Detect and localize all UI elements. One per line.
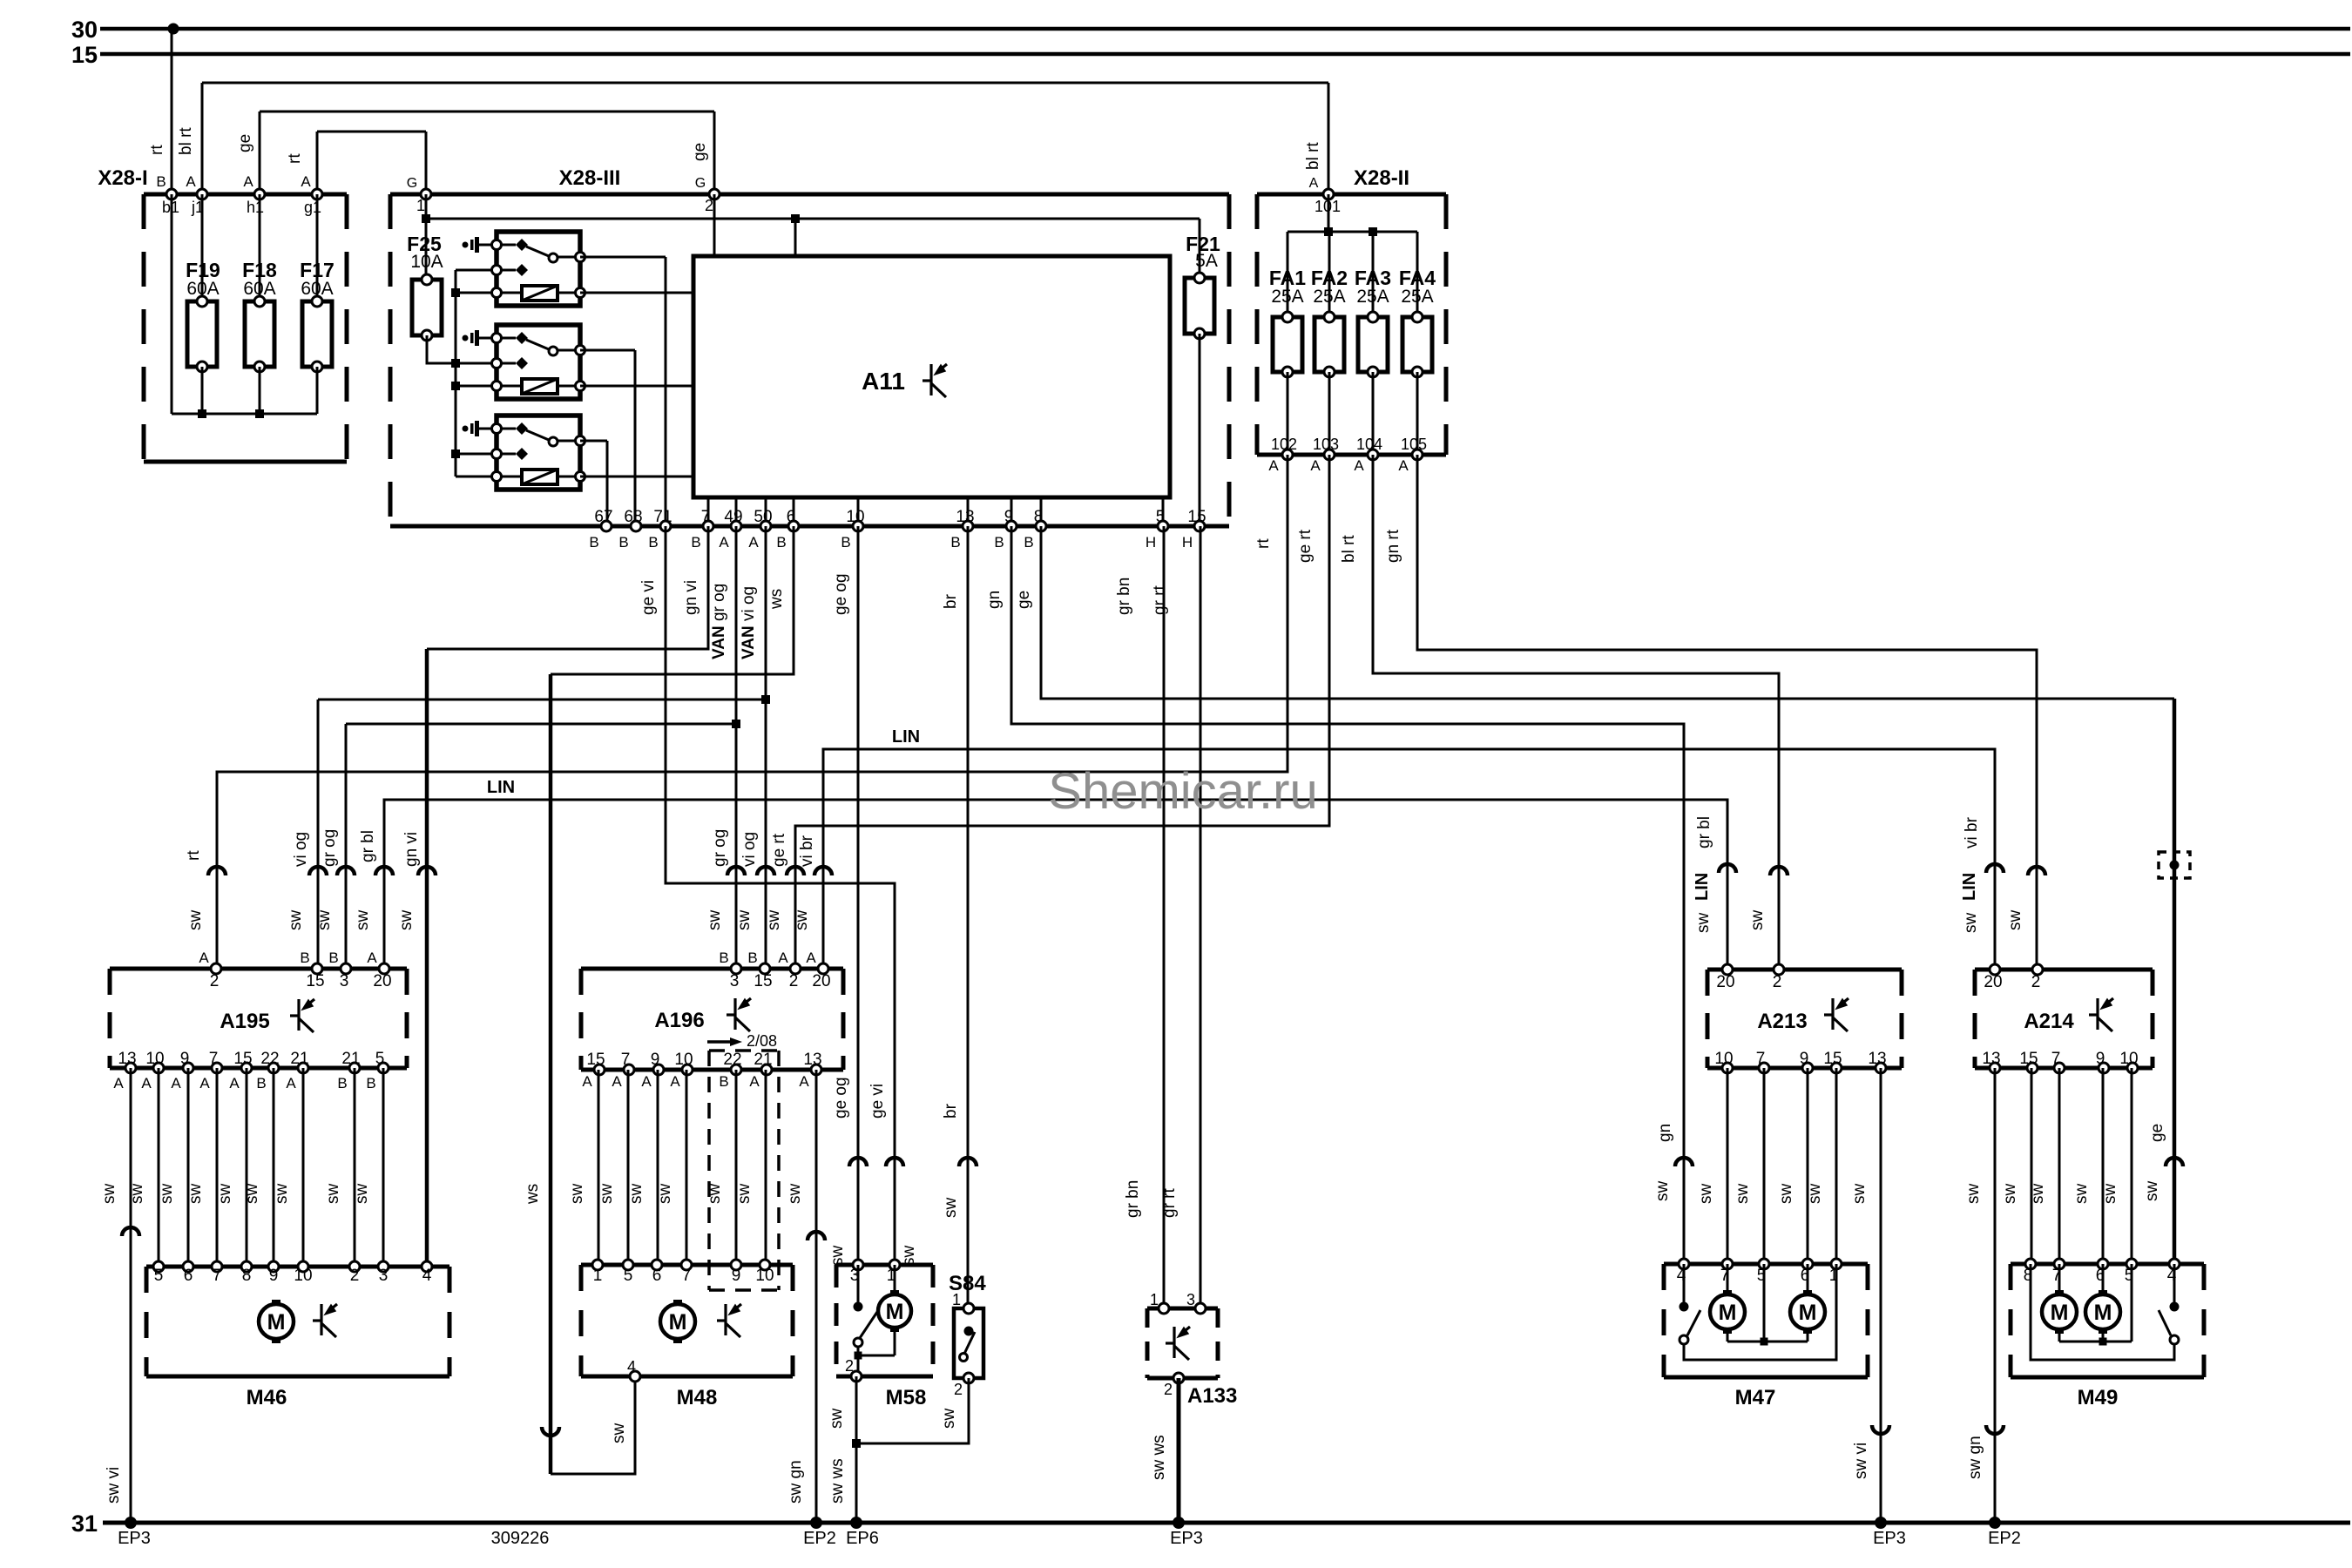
M49 pin 4 bbox=[2167, 1259, 2180, 1285]
svg-text:M49: M49 bbox=[2078, 1386, 2119, 1409]
svg-text:sw: sw bbox=[940, 1409, 958, 1429]
wire sw vi A195 pin13 to ground EP3 bbox=[105, 1068, 151, 1548]
fuse F17 60A bbox=[300, 194, 335, 414]
svg-text:4: 4 bbox=[627, 1358, 636, 1375]
svg-text:A: A bbox=[1398, 457, 1409, 474]
svg-text:br: br bbox=[942, 593, 960, 609]
svg-text:gn vi: gn vi bbox=[682, 580, 700, 615]
X28-III pin 67 bbox=[589, 508, 612, 551]
svg-text:68: 68 bbox=[624, 508, 642, 526]
svg-text:ge: ge bbox=[236, 134, 254, 152]
X28-II pin 103 bbox=[1310, 436, 1339, 474]
svg-text:sw: sw bbox=[287, 910, 305, 931]
svg-text:X28-I: X28-I bbox=[98, 166, 147, 190]
A196 pin 22 bottom bbox=[719, 1051, 741, 1090]
svg-text:1: 1 bbox=[1150, 1291, 1159, 1308]
wire sw ws A133 pin2 to ground EP3 bbox=[1150, 1378, 1203, 1548]
svg-text:sw: sw bbox=[2143, 1181, 2161, 1202]
svg-text:sw: sw bbox=[568, 1184, 586, 1205]
svg-text:A133: A133 bbox=[1187, 1384, 1237, 1408]
svg-text:104: 104 bbox=[1356, 436, 1382, 453]
M48 pin 9 bbox=[731, 1260, 741, 1285]
A195 pin 22 bottom bbox=[256, 1050, 279, 1092]
svg-text:gr og: gr og bbox=[711, 829, 729, 867]
fuse FA3 25A bbox=[1355, 267, 1391, 455]
M47 switch bbox=[1680, 1264, 1837, 1360]
wire ws pin6 to M48 pin4 bbox=[524, 526, 794, 1474]
svg-text:A: A bbox=[113, 1075, 124, 1092]
svg-text:sw: sw bbox=[1748, 910, 1767, 931]
svg-text:3: 3 bbox=[379, 1267, 389, 1285]
motor unit M49 bbox=[2011, 1264, 2204, 1409]
svg-text:sw: sw bbox=[627, 1184, 645, 1205]
relay K3 bbox=[463, 416, 585, 490]
svg-text:H: H bbox=[1146, 534, 1156, 551]
motor unit M48 bbox=[581, 1265, 793, 1409]
svg-text:A: A bbox=[1354, 457, 1364, 474]
svg-text:EP2: EP2 bbox=[1988, 1529, 2021, 1548]
svg-text:A: A bbox=[1309, 176, 1319, 191]
M58 pin 1 bbox=[887, 1260, 900, 1285]
A213 pin 13 bottom bbox=[1868, 1050, 1886, 1073]
svg-text:105: 105 bbox=[1401, 436, 1427, 453]
wire sw gn A196 pin13 to ground EP2 bbox=[786, 1070, 836, 1548]
wire ge rt FA2 to A196 pin2 bbox=[765, 455, 1329, 969]
A196 pin 15 bbox=[747, 950, 772, 990]
M47 pin 5 bbox=[1757, 1259, 1769, 1285]
svg-text:sw: sw bbox=[353, 1184, 371, 1205]
X28-II pin 101 bbox=[1309, 176, 1341, 215]
M47 pin 4 bbox=[1677, 1259, 1689, 1285]
M48 symbol bbox=[717, 1304, 741, 1337]
svg-text:2: 2 bbox=[954, 1381, 963, 1398]
A196 pin 9 bottom bbox=[641, 1051, 664, 1090]
svg-text:gr bl: gr bl bbox=[359, 830, 377, 862]
svg-text:15: 15 bbox=[586, 1051, 605, 1069]
A213 pin 7 bottom bbox=[1756, 1050, 1769, 1073]
relay pins bbox=[492, 240, 502, 250]
A196 pin 13 bottom bbox=[799, 1051, 821, 1090]
svg-text:sw: sw bbox=[1697, 1184, 1715, 1205]
svg-text:gr bn: gr bn bbox=[1124, 1180, 1142, 1218]
svg-text:ws: ws bbox=[767, 589, 786, 610]
M46 pin 2 bbox=[349, 1261, 360, 1285]
svg-text:M47: M47 bbox=[1735, 1386, 1776, 1409]
svg-text:10: 10 bbox=[755, 1267, 774, 1285]
M46 pin 3 bbox=[378, 1261, 389, 1285]
svg-text:3: 3 bbox=[730, 972, 740, 990]
svg-text:1: 1 bbox=[952, 1291, 961, 1308]
svg-text:B: B bbox=[366, 1075, 375, 1092]
wire ge vi pin71 to M58 pin1 bbox=[639, 526, 918, 1266]
M46 motor bbox=[259, 1300, 294, 1343]
svg-text:sw: sw bbox=[397, 910, 416, 931]
svg-text:A214: A214 bbox=[2024, 1010, 2074, 1033]
wire sw gn A214 pin13 to ground EP2 bbox=[1964, 1068, 2021, 1548]
svg-text:EP2: EP2 bbox=[803, 1529, 836, 1548]
svg-text:10A: 10A bbox=[410, 252, 443, 272]
svg-text:LIN: LIN bbox=[487, 778, 515, 797]
svg-text:sw: sw bbox=[2072, 1184, 2091, 1205]
connector marker on ge wire bbox=[2159, 852, 2190, 878]
X28-III pin 2 G bbox=[695, 176, 720, 214]
svg-text:2: 2 bbox=[210, 972, 220, 990]
svg-text:49: 49 bbox=[724, 508, 742, 526]
wire ge X28-I h1 to X28-III pin 2 bbox=[236, 112, 714, 194]
svg-text:ge rt: ge rt bbox=[1296, 529, 1315, 563]
svg-text:25A: 25A bbox=[1401, 287, 1433, 307]
svg-text:sw: sw bbox=[765, 910, 783, 931]
relay pins bbox=[492, 334, 502, 343]
svg-text:25A: 25A bbox=[1356, 287, 1389, 307]
svg-text:A: A bbox=[641, 1073, 652, 1090]
svg-text:rt: rt bbox=[148, 145, 166, 155]
svg-text:22: 22 bbox=[260, 1050, 279, 1068]
svg-text:2: 2 bbox=[2031, 973, 2041, 991]
svg-text:A: A bbox=[141, 1075, 152, 1092]
svg-text:A: A bbox=[301, 173, 311, 190]
svg-text:50: 50 bbox=[754, 508, 772, 526]
svg-text:H: H bbox=[1182, 534, 1193, 551]
svg-text:sw: sw bbox=[942, 1198, 960, 1219]
svg-text:sw: sw bbox=[706, 910, 724, 931]
X28-III pin 7 bbox=[691, 508, 713, 551]
svg-text:B: B bbox=[719, 950, 728, 966]
svg-text:sw: sw bbox=[1734, 1184, 1752, 1205]
svg-text:A195: A195 bbox=[220, 1010, 269, 1033]
svg-text:13: 13 bbox=[956, 508, 974, 526]
svg-text:6: 6 bbox=[184, 1267, 193, 1285]
svg-text:B: B bbox=[618, 534, 628, 551]
svg-text:gn: gn bbox=[985, 591, 1004, 609]
svg-text:15: 15 bbox=[1823, 1050, 1842, 1068]
svg-text:1: 1 bbox=[593, 1267, 603, 1285]
svg-text:A213: A213 bbox=[1757, 1010, 1807, 1033]
svg-text:br: br bbox=[942, 1103, 960, 1119]
A195 pin 13 bottom bbox=[113, 1050, 136, 1092]
svg-text:2/08: 2/08 bbox=[747, 1032, 777, 1050]
svg-text:A11: A11 bbox=[862, 368, 905, 395]
A196 pin 21 bottom bbox=[749, 1051, 772, 1090]
svg-text:B: B bbox=[691, 534, 700, 551]
M49 pin 6 bbox=[2096, 1259, 2108, 1285]
wire F25 to relay bus bbox=[427, 335, 456, 363]
svg-text:2: 2 bbox=[1773, 973, 1782, 991]
svg-text:sw: sw bbox=[2101, 1184, 2119, 1205]
svg-text:VAN gr og: VAN gr og bbox=[710, 584, 728, 659]
svg-text:B: B bbox=[994, 534, 1004, 551]
svg-text:B: B bbox=[1024, 534, 1033, 551]
X28-III pin 5 bbox=[1146, 508, 1168, 551]
svg-text:A: A bbox=[582, 1073, 592, 1090]
label 309226 bbox=[491, 1529, 550, 1548]
svg-text:gr rt: gr rt bbox=[1151, 585, 1169, 616]
svg-text:A: A bbox=[199, 1075, 210, 1092]
control unit A196 bbox=[581, 969, 843, 1070]
A195 pin 5 bottom bbox=[366, 1050, 389, 1092]
M46 pin 5 bbox=[153, 1261, 164, 1285]
relay pins bbox=[492, 424, 502, 434]
M49 pin 7 bbox=[2052, 1259, 2065, 1285]
X28-II pin 105 bbox=[1398, 436, 1427, 474]
svg-text:M: M bbox=[2051, 1301, 2069, 1325]
svg-text:sw gn: sw gn bbox=[1966, 1436, 1984, 1479]
svg-text:vi og: vi og bbox=[740, 832, 759, 867]
wire sw vi A213 pin13 to ground EP3 bbox=[1850, 1068, 1906, 1548]
svg-text:20: 20 bbox=[1984, 973, 2002, 991]
relay K1 bbox=[463, 232, 585, 306]
A195 pin 21 bottom bbox=[337, 1050, 360, 1092]
svg-text:sw: sw bbox=[656, 1184, 674, 1205]
svg-text:21: 21 bbox=[290, 1050, 308, 1068]
A214 pin 9 bottom bbox=[2096, 1050, 2109, 1073]
svg-text:15: 15 bbox=[754, 972, 772, 990]
wire ge pin8 to M49 pin4 bbox=[1015, 526, 2183, 1264]
svg-text:M: M bbox=[886, 1300, 904, 1324]
wire relay K3 coil to A11 bbox=[580, 476, 693, 478]
option dashed box bbox=[709, 1051, 779, 1290]
wire relay K2 output to pin 68 bbox=[580, 350, 635, 526]
svg-text:5: 5 bbox=[375, 1050, 385, 1068]
internal feed wire from pin1 to F21 and A11 bbox=[422, 194, 1200, 280]
wire gr bn pin5 to A133 pin1 bbox=[1115, 526, 1164, 1308]
M46 pin 6 bbox=[183, 1261, 193, 1285]
M48 pin 6 bbox=[652, 1260, 662, 1285]
relay supply bus bbox=[451, 270, 497, 476]
wire LIN vi br A196 pin20 to A214 pin20 bbox=[793, 727, 2004, 970]
A214 pin 2 bbox=[2031, 964, 2043, 991]
svg-text:31: 31 bbox=[71, 1511, 98, 1537]
switch S84 bbox=[949, 1272, 986, 1378]
M46 pin 7 bbox=[212, 1261, 222, 1285]
svg-text:sw gn: sw gn bbox=[787, 1460, 805, 1504]
svg-text:bl rt: bl rt bbox=[1340, 535, 1358, 563]
fuse FA4 25A bbox=[1399, 267, 1436, 455]
relay coil bbox=[522, 379, 558, 394]
A195 pin 15 bottom bbox=[229, 1050, 252, 1092]
svg-text:B: B bbox=[156, 173, 166, 190]
svg-text:A: A bbox=[171, 1075, 181, 1092]
M46 symbol bbox=[313, 1304, 337, 1337]
svg-text:bl rt: bl rt bbox=[1304, 142, 1322, 170]
svg-text:sw: sw bbox=[735, 910, 754, 931]
svg-text:6: 6 bbox=[652, 1267, 662, 1285]
wire gn pin9 to M47 pin4 bbox=[985, 526, 1693, 1264]
X28-III pin 71 bbox=[648, 508, 672, 551]
svg-text:EP3: EP3 bbox=[1873, 1529, 1906, 1548]
svg-text:A: A bbox=[778, 950, 788, 966]
control unit A213 bbox=[1707, 970, 1902, 1068]
control unit A214 bbox=[1975, 970, 2153, 1068]
svg-text:13: 13 bbox=[1868, 1050, 1886, 1068]
svg-text:A: A bbox=[229, 1075, 240, 1092]
svg-text:M58: M58 bbox=[886, 1386, 927, 1409]
svg-text:LIN: LIN bbox=[1693, 873, 1712, 901]
svg-text:A: A bbox=[1268, 457, 1279, 474]
X28-II pin 104 bbox=[1354, 436, 1382, 474]
svg-text:VAN vi og: VAN vi og bbox=[740, 586, 758, 659]
relay coil bbox=[522, 286, 558, 301]
svg-text:EP3: EP3 bbox=[118, 1529, 151, 1548]
svg-text:7: 7 bbox=[1756, 1050, 1766, 1068]
svg-text:9: 9 bbox=[1004, 508, 1014, 526]
fuse F25 10A bbox=[407, 233, 443, 341]
wire ge og pin10 to M58 pin3 bbox=[828, 526, 867, 1266]
svg-text:sw vi: sw vi bbox=[1852, 1443, 1870, 1479]
svg-text:25A: 25A bbox=[1271, 287, 1303, 307]
svg-text:A: A bbox=[748, 534, 759, 551]
wire bl rt X28-I j1 to X28-II 101 bbox=[177, 83, 1328, 194]
watermark bbox=[1048, 763, 1317, 820]
svg-text:15: 15 bbox=[2019, 1050, 2038, 1068]
svg-text:13: 13 bbox=[1982, 1050, 2000, 1068]
svg-text:A: A bbox=[749, 1073, 760, 1090]
A196 pin 20 bbox=[806, 950, 830, 990]
svg-text:309226: 309226 bbox=[491, 1529, 550, 1548]
connector block X28-I bbox=[98, 166, 347, 462]
M46 pin 8 bbox=[241, 1261, 252, 1285]
wire relay K3 output to pin 67 bbox=[580, 441, 607, 526]
svg-text:B: B bbox=[719, 1073, 728, 1090]
A195 pin 21 bottom bbox=[286, 1050, 308, 1092]
wire bl rt FA3 to A213 pin2 bbox=[1340, 455, 1788, 970]
svg-text:20: 20 bbox=[812, 972, 830, 990]
A214 pin 13 bottom bbox=[1982, 1050, 2000, 1073]
A196 pin 10 bottom bbox=[670, 1051, 693, 1090]
wire relay K1 coil to A11 bbox=[580, 292, 693, 294]
svg-text:20: 20 bbox=[1716, 973, 1734, 991]
A195 pin 7 bottom bbox=[199, 1050, 222, 1092]
svg-text:B: B bbox=[776, 534, 786, 551]
M48 pin 7 bbox=[681, 1260, 692, 1285]
relay contacts bbox=[497, 244, 516, 247]
M48 pin 5 bbox=[623, 1260, 633, 1285]
M48 pin 4 bbox=[627, 1358, 640, 1382]
control unit A195 bbox=[110, 969, 407, 1068]
A213 pin 9 bottom bbox=[1800, 1050, 1813, 1073]
fuse FA1 25A bbox=[1269, 267, 1306, 455]
svg-text:sw: sw bbox=[354, 910, 372, 931]
wire S84 pin2 to M58 ground wire bbox=[856, 1378, 969, 1443]
M49 pin 5 bbox=[2125, 1259, 2137, 1285]
wires A195 to M46 bbox=[100, 1068, 383, 1267]
svg-text:7: 7 bbox=[621, 1051, 631, 1069]
svg-text:A: A bbox=[670, 1073, 680, 1090]
svg-text:2: 2 bbox=[350, 1267, 360, 1285]
svg-text:sw: sw bbox=[1694, 913, 1713, 934]
X28-III pin 68 bbox=[618, 508, 642, 551]
svg-text:21: 21 bbox=[754, 1051, 772, 1069]
svg-text:B: B bbox=[841, 534, 850, 551]
svg-text:10: 10 bbox=[846, 508, 864, 526]
X28-I pin h1 bbox=[243, 173, 265, 216]
svg-text:sw: sw bbox=[2006, 910, 2024, 931]
svg-text:22: 22 bbox=[723, 1051, 741, 1069]
M47 pin 7 bbox=[1720, 1259, 1733, 1285]
svg-text:G: G bbox=[407, 176, 417, 191]
M46 pin 9 bbox=[268, 1261, 279, 1285]
bus 30 bbox=[71, 17, 2350, 43]
svg-text:5A: 5A bbox=[1195, 251, 1218, 271]
svg-text:sw: sw bbox=[1962, 913, 1980, 934]
svg-text:M: M bbox=[2094, 1301, 2112, 1325]
svg-text:9: 9 bbox=[1800, 1050, 1809, 1068]
svg-text:ge vi: ge vi bbox=[639, 580, 658, 615]
svg-text:B: B bbox=[950, 534, 960, 551]
A195 pin 20 bbox=[367, 950, 391, 990]
relay contacts bbox=[497, 337, 516, 340]
wires A214 to M49 bbox=[2001, 1068, 2132, 1264]
svg-text:103: 103 bbox=[1313, 436, 1339, 453]
svg-text:Shemicar.ru: Shemicar.ru bbox=[1048, 763, 1317, 820]
svg-text:ge rt: ge rt bbox=[770, 833, 788, 867]
relay ground bbox=[463, 242, 469, 248]
svg-text:vi og: vi og bbox=[292, 832, 310, 867]
svg-text:sw: sw bbox=[786, 1184, 804, 1205]
M46 pin 10 bbox=[294, 1261, 312, 1285]
svg-text:M: M bbox=[669, 1310, 687, 1335]
svg-text:A196: A196 bbox=[654, 1009, 704, 1032]
wire gn rt FA4 to A214 pin2 bbox=[1384, 455, 2045, 970]
A196 pin 3 bbox=[719, 950, 741, 990]
svg-text:A: A bbox=[612, 1073, 622, 1090]
svg-text:sw: sw bbox=[1850, 1184, 1869, 1205]
svg-text:sw: sw bbox=[706, 1184, 724, 1205]
svg-text:21: 21 bbox=[341, 1050, 360, 1068]
svg-text:sw: sw bbox=[216, 1184, 234, 1205]
svg-text:sw: sw bbox=[186, 910, 205, 931]
wire M58 pin2 to ground EP6 bbox=[828, 1376, 879, 1548]
svg-text:sw: sw bbox=[598, 1184, 616, 1205]
svg-text:10: 10 bbox=[674, 1051, 693, 1069]
svg-text:M: M bbox=[267, 1310, 286, 1335]
svg-text:X28-II: X28-II bbox=[1354, 166, 1409, 190]
svg-text:A: A bbox=[806, 950, 816, 966]
svg-text:sw ws: sw ws bbox=[828, 1458, 847, 1504]
svg-text:15: 15 bbox=[306, 972, 324, 990]
X28-III pin 10 bbox=[841, 508, 864, 551]
svg-text:sw: sw bbox=[735, 1184, 754, 1205]
svg-text:A: A bbox=[286, 1075, 296, 1092]
svg-text:sw: sw bbox=[1806, 1184, 1824, 1205]
M48 pin 10 bbox=[755, 1260, 774, 1285]
wire rt bus30 to X28-I pin b1 bbox=[148, 29, 172, 194]
svg-text:15: 15 bbox=[1187, 508, 1206, 526]
svg-text:bl rt: bl rt bbox=[177, 127, 195, 155]
X28-II internal bus bbox=[1288, 194, 1417, 317]
svg-text:13: 13 bbox=[118, 1050, 136, 1068]
svg-text:ge og: ge og bbox=[832, 573, 850, 615]
X28-I internal bus bbox=[172, 409, 317, 418]
svg-text:A: A bbox=[719, 534, 729, 551]
A133 pin 2 bbox=[1164, 1373, 1184, 1398]
svg-text:gn: gn bbox=[1656, 1124, 1674, 1142]
svg-text:sw: sw bbox=[828, 1409, 846, 1429]
svg-text:7: 7 bbox=[209, 1050, 219, 1068]
relay ground bbox=[463, 335, 469, 341]
svg-text:sw: sw bbox=[186, 1184, 205, 1205]
svg-text:M: M bbox=[1799, 1301, 1817, 1325]
control unit A133 bbox=[1147, 1308, 1237, 1408]
A213 pin 2 bbox=[1773, 964, 1784, 991]
svg-text:A: A bbox=[243, 173, 253, 190]
relay K2 bbox=[463, 325, 585, 399]
svg-text:30: 30 bbox=[71, 17, 98, 43]
A195 pin 10 bottom bbox=[141, 1050, 164, 1092]
svg-text:B: B bbox=[589, 534, 598, 551]
svg-text:2: 2 bbox=[845, 1357, 854, 1375]
A213 pin 15 bottom bbox=[1823, 1050, 1842, 1073]
